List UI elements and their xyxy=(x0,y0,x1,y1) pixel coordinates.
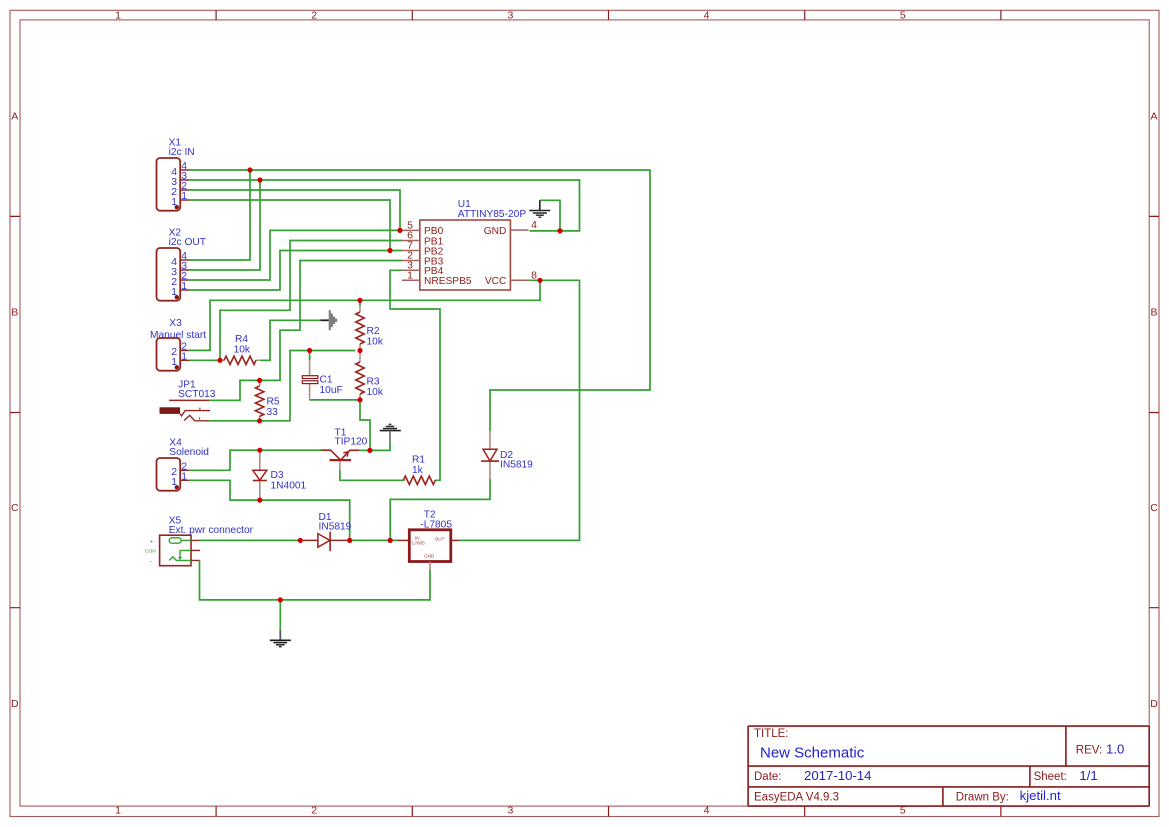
wire T2 GND to bottom rail to X5 pin3 xyxy=(200,560,431,600)
svg-text:4: 4 xyxy=(704,805,710,817)
resistor R3 10k (vertical) xyxy=(356,351,384,400)
svg-text:33: 33 xyxy=(267,407,279,418)
wire JP1 pin2 / R5 bottom to C1 top row xyxy=(209,351,355,421)
svg-text:1: 1 xyxy=(171,197,177,208)
svg-text:C: C xyxy=(1150,502,1158,514)
wire T1 emitter to inverted ground xyxy=(359,441,390,450)
wire D1 cathode to T2 IN xyxy=(350,539,398,541)
svg-text:1: 1 xyxy=(181,352,187,363)
svg-text:3: 3 xyxy=(507,805,513,817)
svg-text:Sheet:: Sheet: xyxy=(1034,771,1067,783)
svg-text:1.0: 1.0 xyxy=(1106,742,1124,757)
svg-text:L7805: L7805 xyxy=(412,541,425,546)
connector X3 xyxy=(150,318,206,371)
junction R2 top xyxy=(357,298,362,303)
connector X4 xyxy=(157,438,210,491)
wire X3 pin2 to VCC rail y300 xyxy=(189,280,540,350)
svg-text:1: 1 xyxy=(171,287,177,298)
junction D1 anode xyxy=(298,538,303,543)
svg-text:1: 1 xyxy=(181,472,187,483)
svg-text:i2c IN: i2c IN xyxy=(169,147,195,158)
svg-text:10k: 10k xyxy=(367,387,384,398)
svg-text:1: 1 xyxy=(407,270,413,282)
diode D3 1N4001 (vertical) xyxy=(253,450,307,500)
svg-text:B: B xyxy=(1150,306,1157,318)
svg-text:ATTINY85-20P: ATTINY85-20P xyxy=(458,209,527,220)
wire X1 pin4 to D2 anode rail xyxy=(189,170,650,431)
wire ground symbol branch at U1 GND xyxy=(540,200,560,231)
connector JP1 SCT013 (audio jack) xyxy=(160,380,216,421)
svg-text:4: 4 xyxy=(531,219,537,231)
junction C1 top xyxy=(307,348,312,353)
svg-text:TIP120: TIP120 xyxy=(335,437,368,448)
svg-text:1: 1 xyxy=(115,10,121,22)
svg-text:1/1: 1/1 xyxy=(1079,768,1097,783)
wire X1 pin3 to X2 pin3 xyxy=(189,180,260,270)
wire X4 pin2 to T1 collector xyxy=(189,450,321,470)
svg-text:Manuel start: Manuel start xyxy=(150,330,206,341)
junction R5 top xyxy=(257,378,262,383)
junction X1 pin3 / X2 pin3 xyxy=(257,177,262,182)
wire PB2 row to X2 pin1 xyxy=(189,251,402,291)
wire R1 right to PB4 xyxy=(390,270,440,480)
svg-text:1: 1 xyxy=(171,477,177,488)
junction bottom ground node xyxy=(278,597,283,602)
svg-text:A: A xyxy=(11,111,18,123)
junction PB0 node xyxy=(397,228,402,233)
wire PB3 to R5 top / JP1 pin1 xyxy=(209,261,402,401)
resistor R4 10k (horizontal) xyxy=(220,334,260,364)
svg-text:-L7805: -L7805 xyxy=(420,519,452,530)
junction X1 pin4 / X2 pin4 xyxy=(247,167,252,172)
svg-text:X3: X3 xyxy=(169,318,182,329)
junction GND pin node xyxy=(557,228,562,233)
wire R3 bottom jog to T1 emitter node xyxy=(360,400,370,451)
wire X1 pin4 to X2 pin4 xyxy=(189,170,250,260)
resistor R2 10k (vertical) xyxy=(356,306,384,351)
svg-text:+: + xyxy=(150,539,154,546)
svg-text:10k: 10k xyxy=(234,344,251,355)
wire X1 pin1 to PB2 xyxy=(189,200,390,251)
svg-text:IN5819: IN5819 xyxy=(500,460,533,471)
wire T1 base to R1 left xyxy=(340,470,403,480)
regulator T2 -L7805 xyxy=(398,510,459,570)
svg-text:3: 3 xyxy=(507,10,513,22)
svg-text:IN5819: IN5819 xyxy=(319,521,352,532)
svg-text:TITLE:: TITLE: xyxy=(754,728,789,740)
wire PB1 to X3 pin1 / R4 left xyxy=(189,241,402,361)
svg-text:1k: 1k xyxy=(412,465,424,476)
junction R2 bottom / R3 top xyxy=(357,348,362,353)
svg-text:10k: 10k xyxy=(367,336,384,347)
junction D3 top xyxy=(257,448,262,453)
svg-text:Drawn By:: Drawn By: xyxy=(956,792,1009,804)
capacitor C1 10uF xyxy=(302,360,342,400)
svg-text:2: 2 xyxy=(311,10,317,22)
svg-text:Date:: Date: xyxy=(754,771,782,783)
connector X5 xyxy=(145,516,254,566)
svg-text:EasyEDA V4.9.3: EasyEDA V4.9.3 xyxy=(754,792,839,804)
junction D3 bottom xyxy=(257,498,262,503)
gray ground flag (R4 net) xyxy=(320,310,337,330)
junction T1 emitter node xyxy=(367,448,372,453)
wire X1 pin2 to PB0 xyxy=(189,190,400,230)
wire C1 bottom to R3 bottom xyxy=(310,399,360,401)
ground (bottom, power) xyxy=(270,630,291,647)
wire X1 pin3 (GND net) to x579 drop xyxy=(189,180,580,231)
svg-text:5: 5 xyxy=(900,10,906,22)
TITLE BLOCK xyxy=(748,726,1149,806)
svg-text:Ext. pwr connector: Ext. pwr connector xyxy=(169,525,254,536)
junction R3 bottom xyxy=(357,397,362,402)
wire X5 pin1 to D1 anode xyxy=(199,539,300,541)
inverted ground (near T1) xyxy=(380,424,401,441)
junction VCC pin node xyxy=(537,278,542,283)
svg-text:kjetil.nt: kjetil.nt xyxy=(1020,788,1061,803)
junction D1 cathode xyxy=(347,538,352,543)
svg-text:A: A xyxy=(1150,111,1157,123)
svg-text:1: 1 xyxy=(115,805,121,817)
wire X4 pin1 to D3 bottom rail to D1 cathode xyxy=(189,480,350,540)
svg-text:Solenoid: Solenoid xyxy=(169,447,209,458)
svg-text:-: - xyxy=(150,558,152,565)
svg-text:NRESPB5: NRESPB5 xyxy=(424,276,472,287)
wire VCC to T2 OUT rail xyxy=(459,280,579,540)
svg-text:VCC: VCC xyxy=(485,276,507,287)
diode D2 IN5819 (vertical) xyxy=(481,431,533,479)
wire D2 cathode to T2 IN node xyxy=(390,479,490,541)
svg-text:1N4001: 1N4001 xyxy=(271,480,307,491)
svg-text:D: D xyxy=(11,698,19,710)
svg-text:SCT013: SCT013 xyxy=(178,389,216,400)
svg-text:2: 2 xyxy=(311,805,317,817)
svg-text:OUT: OUT xyxy=(435,537,445,542)
svg-text:New Schematic: New Schematic xyxy=(760,745,865,762)
svg-text:1: 1 xyxy=(181,281,187,292)
svg-text:4: 4 xyxy=(704,10,710,22)
svg-text:B: B xyxy=(11,306,18,318)
junction R4 left / X3 pin1 xyxy=(217,358,222,363)
wire C1 top lead xyxy=(309,351,311,361)
connector X1 xyxy=(157,137,195,210)
op-amp U1 ATTINY85-20P xyxy=(402,199,537,290)
svg-text:CON: CON xyxy=(145,548,156,554)
svg-text:C: C xyxy=(11,502,19,514)
svg-text:8: 8 xyxy=(531,270,537,282)
connector X2 xyxy=(157,227,206,300)
wire R2 top stub xyxy=(359,300,361,306)
junction R5 bottom xyxy=(257,418,262,423)
svg-text:1: 1 xyxy=(181,191,187,202)
svg-text:1: 1 xyxy=(171,357,177,368)
svg-text:GND: GND xyxy=(484,226,507,237)
svg-text:i2c OUT: i2c OUT xyxy=(169,237,206,248)
transistor T1 TIP120 xyxy=(321,427,368,470)
svg-text:2017-10-14: 2017-10-14 xyxy=(804,768,871,783)
svg-text:REV:: REV: xyxy=(1076,745,1102,757)
wire PB0 row to X2 pin2 xyxy=(189,230,402,280)
ground (top right, at U1 GND) xyxy=(529,200,550,217)
wire R4 right to gray ground flag xyxy=(260,320,321,360)
svg-text:D: D xyxy=(1150,698,1158,710)
resistor R1 1k (horizontal) xyxy=(403,455,435,485)
wire bottom ground stem xyxy=(279,600,281,630)
resistor R5 33 (vertical) xyxy=(255,380,279,420)
junction PB2 node xyxy=(387,248,392,253)
svg-text:GND: GND xyxy=(424,553,435,558)
svg-text:10uF: 10uF xyxy=(320,385,343,396)
junction T2 IN node xyxy=(388,538,393,543)
diode D1 IN5819 (horizontal) xyxy=(300,512,351,551)
